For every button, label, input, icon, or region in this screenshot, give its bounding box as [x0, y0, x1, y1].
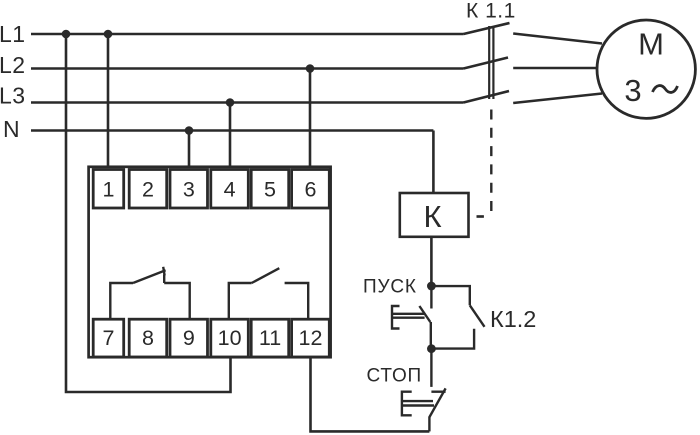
coil K box — [400, 193, 469, 237]
junction dot lower — [427, 344, 436, 353]
svg-text:8: 8 — [142, 326, 154, 350]
bus L1 — [31, 33, 464, 36]
terminal 5 — [251, 170, 289, 209]
svg-text:К1.2: К1.2 — [490, 306, 536, 332]
motor tilde — [653, 86, 678, 93]
wire coil to PUSK node — [430, 237, 433, 286]
svg-text:1: 1 — [103, 177, 115, 201]
svg-text:К 1.1: К 1.1 — [466, 0, 516, 22]
svg-text:10: 10 — [218, 326, 242, 350]
bus N — [31, 129, 433, 132]
junction dot L1-terminal1 — [104, 30, 113, 39]
wire N to terminal 3 — [188, 131, 191, 168]
wire STOP to terminal 12 — [311, 358, 430, 432]
svg-text:К: К — [423, 199, 441, 234]
svg-text:L1: L1 — [0, 21, 26, 47]
junction dot N-terminal3 — [185, 126, 194, 135]
junction dot L2-terminal6 — [306, 64, 315, 73]
wire N to coil K — [432, 131, 435, 194]
svg-text:3: 3 — [183, 177, 195, 201]
terminal 12 — [292, 319, 330, 357]
wire L1 to terminal 10 — [66, 34, 231, 392]
contactor K1.1 linkage bar — [488, 26, 490, 99]
wire L3 to terminal 4 — [229, 103, 232, 168]
junction dot upper — [427, 282, 436, 291]
coil K minus tick — [477, 215, 484, 217]
svg-text:5: 5 — [264, 177, 276, 201]
junction dot L3-terminal4 — [226, 98, 235, 107]
wire L2 to terminal 6 — [309, 69, 312, 168]
relay contact 10-12 — [229, 268, 308, 319]
terminal 4 — [211, 170, 249, 209]
svg-text:4: 4 — [224, 177, 236, 201]
pushbutton PUSK (NO) — [392, 286, 431, 349]
bus L3 — [31, 101, 464, 104]
wire K1.1 to motor phase 3 — [513, 94, 602, 104]
svg-text:2: 2 — [142, 177, 154, 201]
junction dot L1-branch — [62, 30, 71, 39]
terminal 10 — [211, 319, 249, 357]
svg-text:L3: L3 — [0, 83, 26, 109]
svg-text:6: 6 — [305, 177, 317, 201]
contactor K1.1 contact phase L1 — [464, 23, 510, 34]
svg-text:9: 9 — [183, 326, 195, 350]
svg-text:СТОП: СТОП — [367, 366, 422, 387]
bus L2 — [31, 67, 464, 70]
terminal 3 — [170, 170, 208, 209]
terminal 11 — [251, 319, 289, 357]
relay device outline — [89, 167, 331, 357]
terminal 9 — [170, 319, 208, 357]
motor M circle — [597, 20, 695, 118]
dashed mechanical link to coil — [490, 110, 492, 213]
svg-text:ПУСК: ПУСК — [363, 277, 417, 298]
terminal 6 — [292, 170, 330, 209]
terminal 8 — [129, 319, 167, 357]
contact K1.2 branch — [431, 286, 484, 349]
svg-text:N: N — [3, 116, 20, 142]
terminal 1 — [93, 170, 124, 209]
svg-text:11: 11 — [259, 326, 281, 350]
svg-text:3: 3 — [624, 73, 641, 108]
wire K1.1 to motor phase 1 — [513, 34, 602, 44]
terminal 2 — [129, 170, 167, 209]
wire K1.1 to motor phase 2 — [513, 67, 598, 70]
wire L1 to terminal 1 — [107, 34, 110, 167]
contactor K1.1 contact phase L2 — [464, 58, 509, 69]
svg-text:L2: L2 — [0, 52, 26, 78]
terminal 7 — [93, 319, 124, 357]
relay contact 7-9 — [110, 267, 189, 319]
svg-text:7: 7 — [103, 326, 115, 350]
svg-text:М: М — [638, 27, 664, 62]
pushbutton STOP (NC) — [402, 349, 446, 432]
svg-text:12: 12 — [299, 326, 323, 350]
contactor K1.1 contact phase L3 — [464, 91, 510, 103]
